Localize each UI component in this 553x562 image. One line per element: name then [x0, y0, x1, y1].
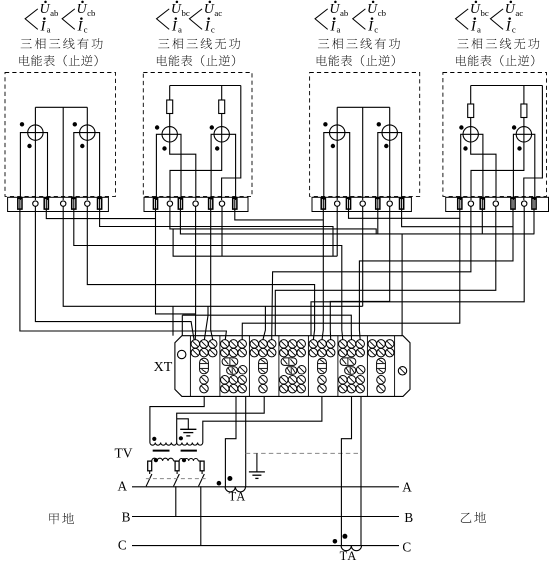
- wire voltage bus phase b: [63, 206, 363, 306]
- transformer TA2 (line C): [341, 546, 361, 551]
- wire TV primary leads: [150, 460, 152, 462]
- polarity dot P3 e1 lower: [331, 144, 335, 148]
- svg-text:c: c: [211, 24, 215, 34]
- label P1 line1 三相三线有功: [21, 39, 32, 48]
- meter element P3-W2 circle: [382, 125, 397, 140]
- svg-text:TA: TA: [229, 490, 247, 504]
- terminal strip P3 outline: [312, 197, 411, 211]
- wire C1p1 to XT A1: [35, 206, 194, 339]
- polarity dot TV pri cb: [182, 458, 186, 462]
- wire right branch to C3 P2: [222, 86, 241, 201]
- XT section 6 lower terminal grid: [339, 376, 348, 385]
- line C: [132, 545, 399, 547]
- resistor P2-R2: [219, 100, 225, 114]
- polarity dot P3 e2 lower: [384, 144, 388, 148]
- svg-text:cb: cb: [378, 8, 387, 18]
- wire link drop to XT cap: [181, 315, 183, 336]
- resistor P4-R2: [521, 104, 527, 118]
- wire XT A to TV primary a: [150, 396, 204, 442]
- wire C1p2 link east: [170, 206, 376, 234]
- switch blade a: [146, 474, 152, 486]
- resistor P4-R1: [468, 104, 474, 118]
- fuse FU2: [175, 461, 179, 471]
- wire current path element2 P3: [378, 133, 402, 200]
- svg-text:I: I: [470, 18, 477, 34]
- svg-text:TA: TA: [340, 549, 358, 562]
- transformer TA1 (line A): [225, 487, 245, 492]
- dashed gang link: [146, 478, 206, 480]
- meter element P1-W1 circle: [28, 125, 43, 140]
- inductor TV primary cb: [179, 459, 198, 461]
- terminals P4: [458, 198, 462, 209]
- polarity dot P1 e1 lower: [27, 144, 31, 148]
- wire bus branch to XT A2: [204, 306, 208, 339]
- polarity dot P2 e2 lower: [215, 146, 219, 150]
- dashed earth link: [246, 452, 361, 454]
- meter element P2-W1 circle: [162, 127, 177, 142]
- XT section 2 top terminals: [221, 340, 230, 349]
- wire R1p2 link: [156, 197, 197, 314]
- terminal strip P1 outline: [8, 197, 109, 211]
- wire link to C1p3: [173, 229, 337, 256]
- svg-text:C: C: [118, 538, 127, 553]
- TV core bars: [153, 450, 170, 452]
- polarity dot TA1 inner: [227, 476, 232, 481]
- switch blade c: [199, 474, 205, 486]
- label P4 line1 三相三线无功: [457, 39, 468, 48]
- wire link drop to XT cap right: [401, 234, 403, 336]
- XT section 3 top terminals: [250, 340, 258, 349]
- XT mounting hole right: [398, 367, 406, 375]
- wire R2p4 drop: [481, 197, 483, 234]
- meter P1 dashed enclosure: [5, 73, 116, 197]
- XT section 2 lower terminal grid: [221, 376, 230, 385]
- wire current path element1 P4: [461, 134, 483, 200]
- XT section 6 link assembly: [340, 358, 356, 366]
- svg-text:I: I: [204, 18, 211, 34]
- switch blade b: [174, 474, 180, 486]
- svg-text:U: U: [204, 2, 215, 17]
- wire right branch to C3 P4: [524, 86, 543, 201]
- wire voltage e1 to C2 P2: [170, 142, 196, 200]
- terminal block XT outline: [175, 336, 410, 397]
- terminals P2: [153, 198, 157, 209]
- phasor labels meter P4: [456, 9, 469, 30]
- XT section 5 link capsule: [318, 358, 327, 374]
- label P3 line2 电能表(止逆): [317, 55, 327, 66]
- wire XT C to TV neutral: [177, 396, 265, 442]
- phasor labels meter P1: [25, 9, 38, 30]
- svg-text:a: a: [47, 24, 51, 34]
- svg-text:XT: XT: [154, 360, 173, 375]
- XT section 3 link capsule: [259, 358, 268, 374]
- polarity dot P3 e2 upper: [377, 122, 381, 126]
- wire voltage links P3: [337, 106, 390, 108]
- XT section 3 lower terminals: [259, 376, 268, 385]
- wire current path element2 P2: [211, 134, 236, 200]
- polarity dot TA2 outer: [333, 539, 338, 544]
- wire R3p3 drop to link: [377, 197, 379, 234]
- svg-text:I: I: [40, 18, 47, 34]
- wire C3p4 to XT edge: [311, 206, 524, 335]
- svg-text:bc: bc: [481, 8, 489, 18]
- svg-text:B: B: [404, 510, 413, 525]
- wire R1p3 down to XT E2: [322, 197, 323, 340]
- wire C3p2 drop to link: [221, 206, 223, 256]
- svg-text:a: a: [337, 24, 341, 34]
- svg-text:I: I: [329, 18, 336, 34]
- svg-text:B: B: [122, 509, 131, 524]
- XT section 2 link assembly: [222, 358, 238, 366]
- svg-text:C: C: [402, 539, 411, 554]
- fuse FU1: [148, 461, 152, 471]
- svg-text:a: a: [477, 24, 481, 34]
- wire voltage links P1: [35, 106, 87, 108]
- svg-text:U: U: [470, 2, 481, 17]
- wire ground riser 2: [256, 453, 258, 472]
- wire current path element1 P3: [324, 133, 350, 200]
- inductor TV secondary c: [177, 443, 203, 446]
- wire resistor to element P4: [470, 118, 472, 143]
- wire XT F to TA2 lead2: [360, 396, 362, 545]
- wire C2p4 to XT edge: [275, 206, 496, 335]
- svg-text:c: c: [84, 24, 88, 34]
- svg-text:I: I: [505, 18, 512, 34]
- svg-text:c: c: [374, 24, 378, 34]
- wire C2p3 drop to bus: [362, 206, 364, 306]
- wire XT E to TV primary c: [203, 396, 322, 442]
- wire voltage e1 to C2 P4: [471, 142, 496, 200]
- svg-text:U: U: [76, 2, 87, 17]
- label P4 line2 电能表(止逆): [456, 55, 466, 66]
- XT section 1 link capsule: [200, 358, 209, 374]
- svg-text:cb: cb: [87, 8, 96, 18]
- svg-text:A: A: [118, 479, 128, 494]
- meter P4 dashed enclosure: [443, 73, 547, 197]
- wire XT B to TA1 lead2: [245, 396, 247, 486]
- wire C1p4 to XT C3: [272, 206, 471, 340]
- svg-text:c: c: [512, 24, 516, 34]
- wire C2p2 to XT A1: [194, 206, 196, 339]
- wire R3p1 to XT F1: [74, 197, 343, 340]
- wire ground branch TV: [177, 419, 189, 430]
- polarity dot TA2 inner: [342, 534, 347, 539]
- wire bus branch to XT cap: [172, 306, 174, 335]
- polarity dot TA1 outer: [217, 481, 222, 486]
- ground symbol 2: [249, 471, 265, 473]
- wire R4p2 to R1p3: [235, 197, 323, 220]
- line B: [132, 516, 399, 518]
- wire XT F to TA2 lead1: [341, 396, 351, 545]
- XT section 4 link assembly: [281, 358, 297, 366]
- polarity dot P3 e1 upper: [323, 122, 327, 126]
- label P3 line1 三相三线有功: [318, 39, 329, 48]
- wire voltage e2 to C1 P4: [471, 142, 524, 200]
- meter element P1-W2 circle: [80, 125, 95, 140]
- fuse FU3: [200, 461, 204, 471]
- XT section 2 side terminal: [238, 366, 247, 375]
- terminals P3: [321, 198, 325, 209]
- terminal strip P4 outline: [446, 197, 549, 211]
- svg-text:I: I: [367, 18, 374, 34]
- wire XT B to TA1 lead1: [225, 396, 236, 486]
- XT section 6 top terminals: [339, 340, 348, 349]
- wire R2p1 to R1p2: [46, 197, 155, 219]
- polarity dot P4 e1 lower: [463, 146, 467, 150]
- wire R2p2 long current link: [180, 197, 534, 234]
- polarity dot TV sec c: [179, 436, 183, 440]
- svg-text:U: U: [171, 2, 182, 17]
- resistor P2-R1: [167, 100, 173, 114]
- wire R1p1 to XT B1: [20, 197, 227, 340]
- phasor labels meter P3: [315, 9, 328, 30]
- wire top voltage link P2: [170, 85, 241, 87]
- svg-text:A: A: [402, 479, 412, 494]
- label P2 line2 电能表(止逆): [157, 55, 167, 66]
- polarity dot P4 e2 lower: [517, 146, 521, 150]
- svg-text:U: U: [39, 2, 50, 17]
- wire R1p4 to XT B3: [242, 197, 460, 340]
- meter P3 dashed enclosure: [310, 73, 420, 197]
- wire tap to line C: [200, 486, 202, 545]
- polarity dot P1 e1 upper: [20, 122, 24, 126]
- wire R4p4 drop: [533, 197, 535, 234]
- XT section 4 lower terminal grid: [280, 376, 289, 385]
- ground symbol TV: [180, 428, 196, 430]
- phasor labels meter P2: [157, 9, 170, 30]
- wire current path element2 P4: [513, 134, 534, 200]
- wire top voltage link P4: [471, 85, 543, 87]
- label P1 line2 电能表(止逆): [19, 55, 29, 66]
- svg-text:I: I: [77, 18, 84, 34]
- svg-text:U: U: [329, 2, 340, 17]
- meter P2 dashed enclosure: [143, 73, 252, 197]
- svg-text:U: U: [505, 2, 516, 17]
- svg-text:ab: ab: [50, 8, 59, 18]
- polarity dot TV sec a: [152, 437, 156, 441]
- meter element P4-W1 circle: [463, 127, 478, 142]
- XT section 4 side terminal: [297, 366, 306, 375]
- svg-text:U: U: [367, 2, 378, 17]
- polarity dot P2 e1 upper: [155, 125, 159, 129]
- label 乙地: [461, 513, 472, 523]
- polarity dot P4 e2 upper: [512, 125, 516, 129]
- meter element P3-W1 circle: [330, 125, 345, 140]
- svg-text:a: a: [178, 24, 182, 34]
- line A: [132, 486, 399, 488]
- wire current path element1 P2: [156, 134, 181, 200]
- XT section 7 lower terminals: [377, 376, 386, 385]
- wire tap to line B: [175, 486, 177, 516]
- XT section 6 side terminal: [356, 366, 365, 375]
- meter element P4-W2 circle: [516, 127, 531, 142]
- svg-text:ac: ac: [214, 8, 222, 18]
- wire R4p3 to node K2: [402, 197, 514, 227]
- label 甲地: [49, 513, 59, 524]
- inductor TV secondary a: [150, 443, 177, 446]
- svg-text:TV: TV: [115, 446, 133, 461]
- meter element P2-W2 circle: [214, 127, 229, 142]
- XT section 4 top terminals: [280, 340, 289, 349]
- wire voltage e2 to C1 P2: [170, 142, 222, 200]
- wire current path element2 P1: [74, 133, 100, 200]
- XT section dividers: [189, 336, 191, 397]
- label P2 line1 三相三线无功: [158, 39, 169, 48]
- wire bus branch to XT C2: [263, 306, 265, 339]
- wire R3p2 down to XT A3: [211, 197, 213, 340]
- wire current path element1 P1: [20, 133, 47, 200]
- polarity dot P4 e1 upper: [459, 125, 463, 129]
- svg-text:ab: ab: [340, 8, 349, 18]
- wire fuse stubs: [149, 471, 151, 474]
- terminals P1: [18, 198, 22, 209]
- inductor TV primary ab: [152, 458, 174, 461]
- XT mounting hole left: [178, 350, 186, 358]
- wire R2p3 to R1p4: [349, 197, 460, 218]
- XT section 5 lower terminals: [318, 376, 327, 385]
- wire C1p3 down: [336, 206, 338, 256]
- polarity dot TV pri ab: [154, 458, 158, 462]
- wire R3p4 to XT F3: [359, 197, 513, 340]
- XT section 1 lower terminals: [200, 376, 209, 385]
- wire C3p3 to XT E3: [330, 206, 389, 340]
- polarity dot P2 e1 lower: [162, 146, 166, 150]
- terminal strip P2 outline: [144, 197, 248, 211]
- wire R4p1 long link: [100, 197, 333, 256]
- wire C3p1 to XT E1: [87, 206, 314, 340]
- svg-text:bc: bc: [182, 8, 190, 18]
- polarity dot P1 e2 upper: [73, 122, 77, 126]
- polarity dot P2 e2 upper: [210, 125, 214, 129]
- wire link to XT F2: [182, 315, 351, 339]
- XT section 7 link capsule: [377, 358, 386, 374]
- XT section 1 top terminals: [191, 340, 200, 349]
- XT section 5 top terminals: [309, 340, 318, 349]
- polarity dot P1 e2 lower: [80, 144, 84, 148]
- svg-text:I: I: [171, 18, 178, 34]
- wire resistor to element P2: [169, 114, 171, 143]
- svg-text:ac: ac: [515, 8, 523, 18]
- XT section 7 top terminals: [368, 340, 377, 349]
